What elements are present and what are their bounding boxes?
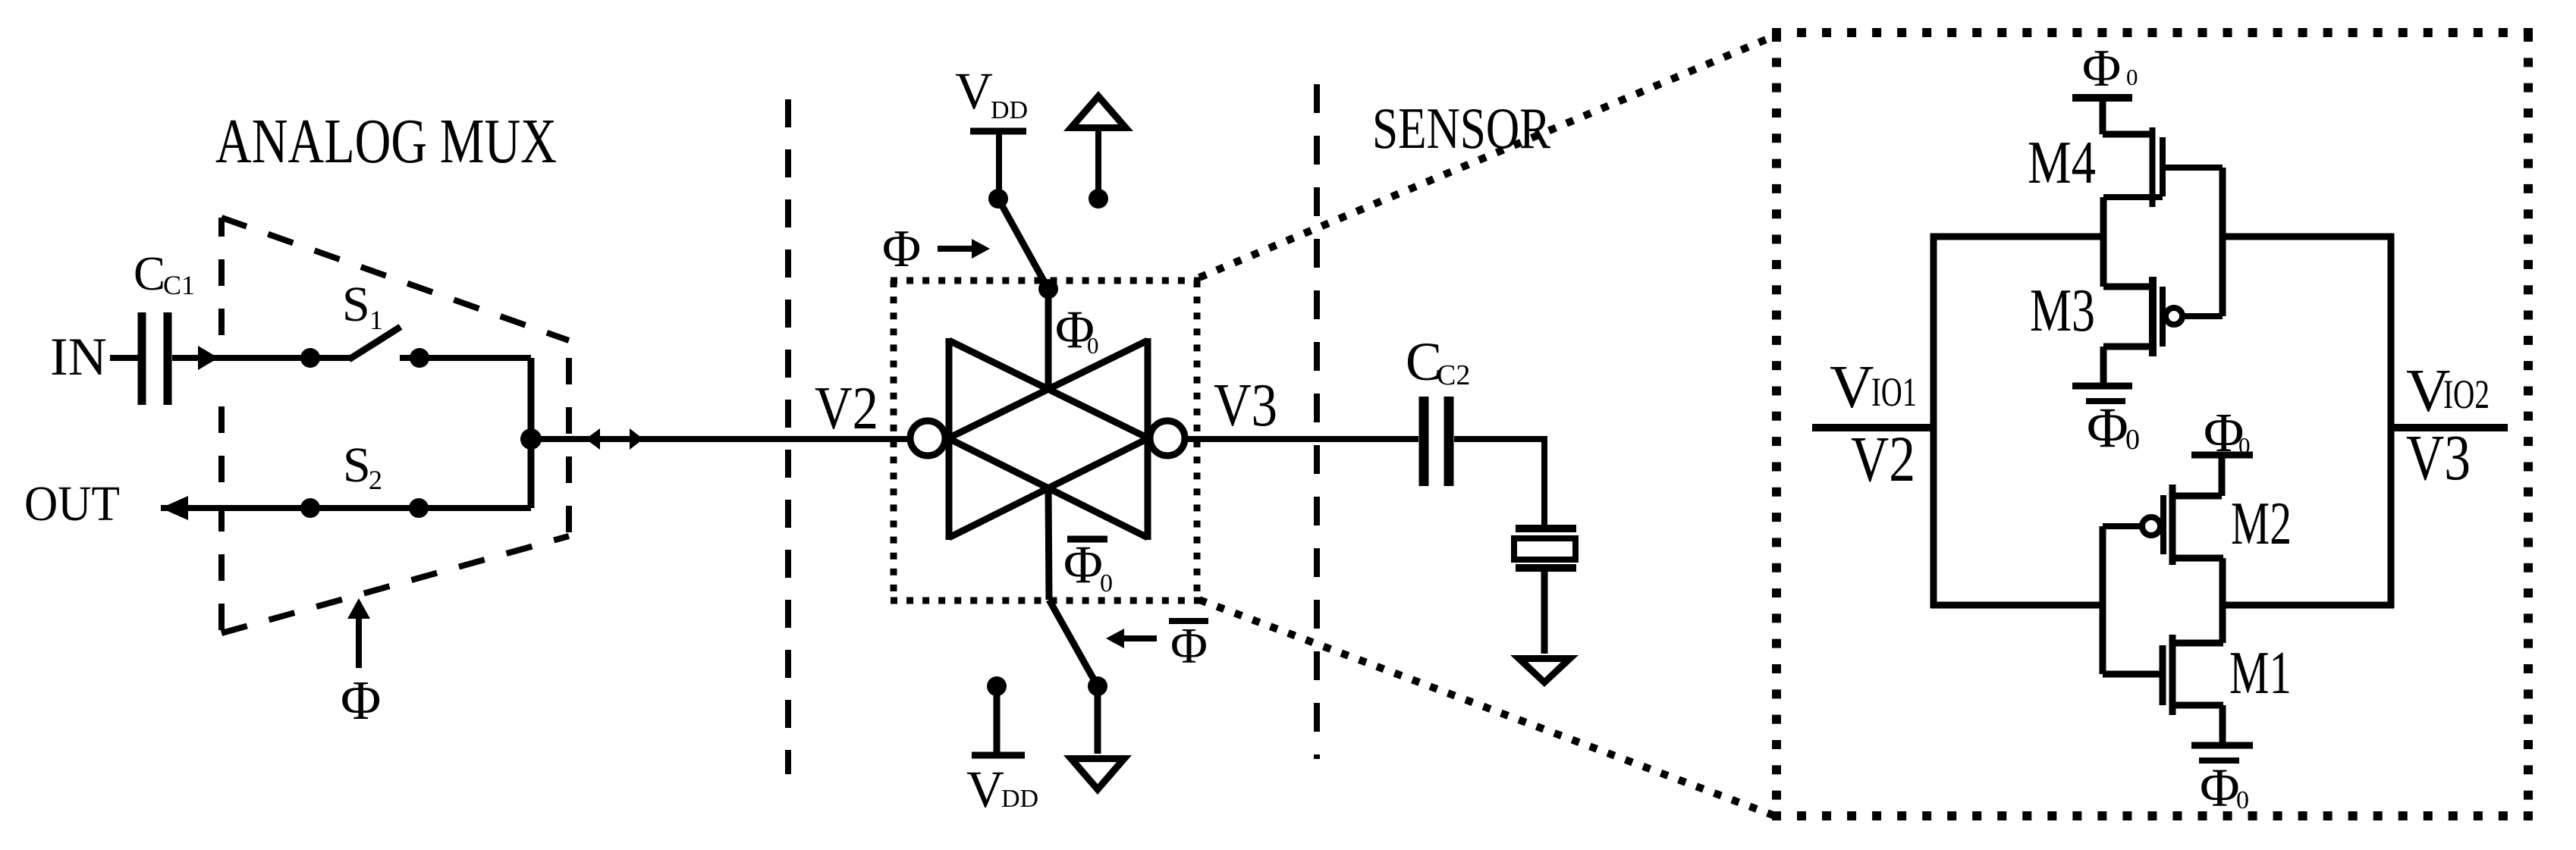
svg-text:Φ: Φ bbox=[2200, 757, 2240, 818]
svg-text:C2: C2 bbox=[1437, 359, 1470, 391]
wire C2 to sensor bbox=[1454, 439, 1544, 525]
wire phi0 vertical top bbox=[1045, 289, 1052, 389]
node VIO1 / V2 terminal bbox=[1812, 424, 1934, 431]
switch S1 bbox=[300, 348, 320, 368]
svg-text:V: V bbox=[966, 761, 1004, 818]
svg-text:V3: V3 bbox=[1214, 372, 1277, 439]
top rail wires bbox=[1930, 234, 2103, 240]
svg-text:V2: V2 bbox=[815, 375, 878, 442]
svg-text:M2: M2 bbox=[2231, 489, 2292, 557]
svg-text:IN: IN bbox=[50, 328, 107, 387]
svg-text:ANALOG MUX: ANALOG MUX bbox=[215, 106, 557, 177]
svg-text:V: V bbox=[955, 62, 993, 120]
svg-text:Φ: Φ bbox=[882, 220, 921, 278]
svg-text:Φ: Φ bbox=[341, 670, 381, 731]
switch phi top bbox=[988, 189, 1008, 209]
wire M2 source to right rail junction bbox=[2219, 558, 2226, 643]
terminal circle right bbox=[1150, 421, 1185, 456]
separator dashed line 1 bbox=[785, 99, 791, 774]
wire IN to C1 bbox=[110, 355, 138, 361]
node VIO2 / V3 terminal bbox=[2391, 424, 2508, 431]
bottom rail wires bbox=[1930, 602, 2103, 609]
svg-text:1: 1 bbox=[369, 305, 383, 335]
phi0 terminal bar (M4) bbox=[2072, 94, 2132, 102]
inner dotted box bbox=[891, 278, 1200, 284]
mux dashed trapezoid outline bbox=[221, 218, 569, 633]
capacitor C2 bbox=[1419, 397, 1429, 486]
wire M3 source down bbox=[2100, 347, 2107, 383]
junction node dot bbox=[520, 428, 542, 450]
phi0-bar terminal bar (M1) bbox=[2191, 742, 2253, 749]
phi0-bar terminal bar (M3) bbox=[2072, 383, 2132, 390]
right rail wire bbox=[2388, 234, 2395, 608]
svg-text:0: 0 bbox=[2126, 64, 2138, 90]
wire phi0 vertical bottom bbox=[1048, 489, 1049, 600]
phi arrow into mux bottom bbox=[356, 616, 362, 668]
wire mux right vertical bbox=[528, 358, 535, 508]
left rail wire bbox=[1930, 234, 1937, 608]
dotted connector top bbox=[1199, 36, 1773, 278]
wire M2 gate to left junction bbox=[2100, 526, 2106, 674]
switch S2 wire with dots bbox=[161, 505, 531, 511]
svg-text:Φ: Φ bbox=[1170, 618, 1208, 674]
svg-text:C1: C1 bbox=[163, 270, 195, 300]
cross-coupled switch symbol (bowtie) bbox=[948, 338, 1148, 540]
svg-text:DD: DD bbox=[991, 96, 1028, 124]
VDD supply bar top bbox=[970, 128, 1026, 135]
svg-text:V: V bbox=[1830, 353, 1874, 421]
wire V3 to C2 bbox=[1188, 436, 1418, 442]
svg-text:2: 2 bbox=[369, 465, 382, 495]
svg-text:S: S bbox=[342, 277, 370, 332]
wire C1 to S1 with arrowhead bbox=[172, 355, 350, 361]
wire M4 drain to right rail junction bbox=[2219, 168, 2226, 316]
label phi0-bar (inner bottom) bbox=[1067, 536, 1107, 543]
label phi0-bar below M1 bbox=[2199, 757, 2239, 764]
svg-text:C: C bbox=[134, 247, 165, 300]
svg-text:IO2: IO2 bbox=[2443, 372, 2490, 417]
label phi0-bar below M3 bbox=[2086, 398, 2125, 404]
svg-text:Φ: Φ bbox=[2082, 39, 2121, 98]
separator dashed line 2 bbox=[1314, 84, 1320, 759]
phi0 terminal bar (M2) bbox=[2191, 452, 2253, 459]
label phi-bar with arrow (bottom) bbox=[1169, 618, 1208, 624]
svg-text:0: 0 bbox=[2125, 424, 2140, 456]
svg-text:Φ: Φ bbox=[2087, 397, 2128, 460]
ground (middle bottom) bbox=[1095, 686, 1101, 754]
terminal circle left bbox=[910, 421, 945, 456]
up arrow symbol (open triangle) bbox=[1063, 91, 1133, 131]
svg-text:IO1: IO1 bbox=[1871, 369, 1917, 415]
wire junction to V2 with double arrowheads bbox=[531, 436, 907, 442]
capacitor C1 bbox=[138, 312, 146, 405]
wire sensor to ground bbox=[1541, 572, 1548, 654]
svg-text:V2: V2 bbox=[1851, 422, 1915, 495]
svg-text:SENSOR: SENSOR bbox=[1372, 96, 1551, 161]
svg-text:0: 0 bbox=[1087, 332, 1099, 359]
svg-text:M3: M3 bbox=[2030, 276, 2095, 344]
wire M1 source down bbox=[2219, 705, 2226, 742]
transistor M4 bbox=[2103, 131, 2152, 138]
transistor M2 bbox=[2169, 493, 2222, 500]
svg-text:S: S bbox=[343, 438, 371, 493]
wire M4 source to left junction bbox=[2100, 197, 2107, 287]
svg-text:0: 0 bbox=[1100, 569, 1113, 598]
svg-text:M1: M1 bbox=[2229, 638, 2292, 707]
svg-text:DD: DD bbox=[1001, 785, 1038, 813]
svg-text:OUT: OUT bbox=[24, 476, 120, 532]
svg-text:0: 0 bbox=[2236, 786, 2249, 814]
big dotted box bbox=[1772, 28, 2533, 37]
svg-text:M4: M4 bbox=[2028, 128, 2096, 196]
ground (sensor) bbox=[1510, 655, 1579, 687]
VDD terminal bottom bbox=[987, 676, 1007, 696]
transistor M3 bbox=[2103, 284, 2153, 290]
transistor M1 bbox=[2103, 671, 2160, 678]
switch phi-bar bottom bbox=[1049, 600, 1098, 686]
dotted connector bottom bbox=[1199, 600, 1775, 816]
crystal sensor element bbox=[1516, 525, 1576, 532]
svg-text:V3: V3 bbox=[2406, 421, 2471, 494]
svg-text:Φ: Φ bbox=[1063, 535, 1103, 594]
